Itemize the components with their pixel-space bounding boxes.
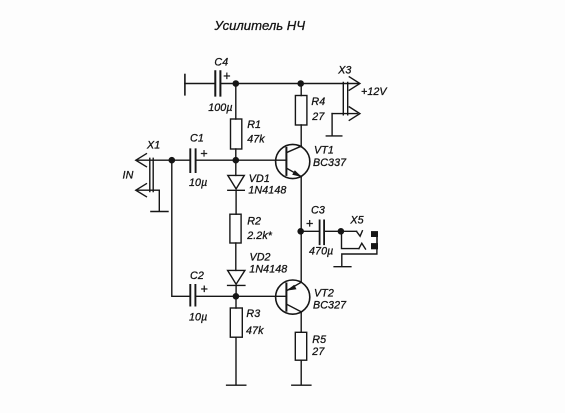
svg-text:+: + — [306, 216, 313, 230]
svg-text:X1: X1 — [146, 140, 160, 152]
svg-text:+: + — [200, 147, 207, 161]
svg-text:C4: C4 — [214, 57, 228, 69]
svg-text:47k: 47k — [246, 325, 264, 337]
svg-text:+12V: +12V — [361, 86, 387, 98]
svg-text:1N4148: 1N4148 — [249, 263, 287, 275]
svg-text:R5: R5 — [312, 334, 326, 346]
svg-text:IN: IN — [123, 170, 134, 182]
svg-text:BC337: BC337 — [313, 157, 347, 169]
svg-text:BC327: BC327 — [313, 300, 347, 312]
svg-text:+: + — [201, 282, 208, 296]
svg-text:R3: R3 — [246, 308, 260, 320]
svg-text:10µ: 10µ — [189, 311, 207, 323]
svg-text:10µ: 10µ — [189, 177, 207, 189]
svg-text:Усилитель НЧ: Усилитель НЧ — [214, 18, 306, 33]
svg-text:VT2: VT2 — [314, 288, 334, 300]
svg-text:100µ: 100µ — [208, 102, 232, 114]
svg-text:47k: 47k — [247, 134, 265, 146]
svg-text:C3: C3 — [311, 204, 325, 216]
svg-text:27: 27 — [311, 111, 325, 123]
svg-text:VD2: VD2 — [250, 251, 271, 263]
svg-text:R2: R2 — [247, 215, 261, 227]
svg-text:VT1: VT1 — [314, 145, 334, 157]
svg-text:C2: C2 — [190, 270, 204, 282]
svg-text:X5: X5 — [349, 214, 363, 226]
svg-text:R1: R1 — [247, 119, 261, 131]
svg-text:X3: X3 — [337, 64, 351, 76]
svg-text:27: 27 — [311, 346, 325, 358]
svg-text:470µ: 470µ — [309, 246, 333, 258]
svg-text:1N4148: 1N4148 — [248, 184, 286, 196]
svg-text:C1: C1 — [190, 133, 204, 145]
svg-text:2.2k*: 2.2k* — [246, 230, 273, 242]
svg-text:R4: R4 — [311, 96, 325, 108]
svg-text:VD1: VD1 — [249, 173, 270, 185]
svg-text:+: + — [223, 69, 230, 83]
